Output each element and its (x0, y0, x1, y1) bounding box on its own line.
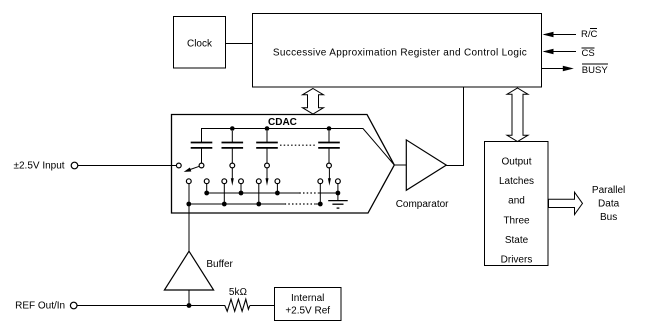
node ground rail S2 (239, 191, 244, 196)
wire contact S2 ref to ref rail (223, 184, 225, 205)
parallel data bus arrow (549, 192, 583, 214)
contact S3 gnd (275, 179, 280, 184)
switch arrow SN (328, 168, 331, 186)
terminal REF Out/In (70, 302, 77, 309)
contact S3 ref (256, 179, 261, 184)
wire comparator output to SAR (446, 87, 463, 166)
label R/C (581, 29, 598, 41)
contact S1 ref (186, 179, 191, 184)
svg-text:Comparator: Comparator (396, 199, 449, 210)
wire R/C input with arrowhead (543, 32, 577, 38)
wire REF to resistor (77, 305, 225, 307)
node ref rail S1 (186, 202, 191, 207)
switch pole S3 (265, 163, 270, 168)
CDAC block outline (172, 115, 395, 214)
wire clock to SAR (226, 43, 253, 45)
wire buffer input stub (188, 290, 190, 306)
capacitor C3 (256, 131, 278, 163)
clock box (174, 17, 226, 69)
switch arrow S3 (266, 168, 269, 186)
SAR and control logic box U1 (253, 14, 542, 88)
wire contact S3 gnd to ground rail (276, 184, 278, 194)
svg-text:Data: Data (598, 198, 620, 209)
wire resistor to internal ref (250, 305, 275, 307)
node ref rail SN (318, 202, 323, 207)
switch pole SN (327, 163, 332, 168)
switch pole S1 (199, 163, 204, 168)
wire contact SN gnd to ground rail (337, 184, 339, 194)
svg-text:REF Out/In: REF Out/In (15, 301, 65, 312)
wire contact S3 ref to ref rail (258, 184, 260, 205)
node ground rail S1 (204, 191, 209, 196)
internal reference box U5 (275, 288, 342, 321)
contact SN ref (318, 179, 323, 184)
node ground rail S3 (275, 191, 280, 196)
capacitor C1 (191, 143, 213, 164)
svg-text:Parallel: Parallel (592, 185, 625, 196)
svg-text:5kΩ: 5kΩ (229, 287, 247, 298)
bidirectional bus arrow SAR to output latches (507, 88, 528, 142)
contact S2 ref (222, 179, 227, 184)
bidirectional bus arrow SAR to CDAC (303, 89, 324, 115)
wire CS input with arrowhead (543, 49, 577, 55)
switch arm S1 wiper arrow (184, 166, 200, 172)
switch pole S2 (230, 163, 235, 168)
input terminal node inside CDAC (176, 163, 181, 168)
wire input to switch (78, 165, 177, 167)
svg-text:Internal: Internal (291, 293, 324, 304)
svg-text:Latches: Latches (499, 176, 534, 187)
contact S1 gnd (204, 179, 209, 184)
svg-text:+2.5V Ref: +2.5V Ref (285, 306, 330, 317)
svg-text:and: and (508, 196, 525, 207)
svg-text:Clock: Clock (187, 39, 213, 50)
dotted continuation of capacitor array (280, 144, 317, 146)
terminal ±2.5V Input (71, 162, 78, 169)
svg-text:CS: CS (582, 48, 595, 59)
capacitor C2 (222, 131, 244, 163)
node top rail cap2 (230, 126, 235, 131)
svg-text:±2.5V Input: ±2.5V Input (14, 161, 65, 172)
output latches box U3 (485, 142, 549, 266)
ground symbol (328, 193, 348, 208)
svg-text:Three: Three (503, 215, 530, 226)
svg-text:Buffer: Buffer (206, 259, 233, 270)
svg-text:Bus: Bus (600, 212, 617, 223)
top rail of CDAC (to comparator input) (202, 129, 395, 166)
node top rail capN (327, 126, 332, 131)
contact SN gnd (336, 179, 341, 184)
svg-text:BUSY: BUSY (582, 65, 609, 76)
contact S2 gnd (239, 179, 244, 184)
wire contact SN ref to ref rail (319, 184, 321, 205)
svg-text:State: State (505, 235, 529, 246)
svg-text:CDAC: CDAC (268, 117, 297, 128)
node ref rail S2 (222, 202, 227, 207)
wire BUSY output with arrowhead (542, 66, 574, 72)
label BUSY (582, 64, 609, 76)
node ground rail SN (336, 191, 341, 196)
wire buffer output to ref rail and contact S1 ref (188, 184, 190, 252)
ref rail (189, 203, 320, 205)
node ref rail S3 (256, 202, 261, 207)
buffer amplifier U4 (164, 251, 213, 290)
svg-text:Drivers: Drivers (501, 254, 533, 265)
comparator U2 (406, 140, 446, 190)
ground rail (207, 192, 338, 194)
capacitor CN (318, 131, 340, 163)
svg-text:R/C: R/C (581, 29, 598, 40)
svg-text:Successive Approximation Regis: Successive Approximation Register and Co… (273, 47, 527, 58)
svg-text:Output: Output (501, 157, 531, 168)
node buffer input junction (187, 303, 192, 308)
resistor R1 5kOhm (225, 299, 250, 311)
switch arrow S2 (231, 168, 234, 186)
comparator input wire (394, 164, 406, 166)
wire contact S2 gnd to ground rail (240, 184, 242, 194)
node top rail cap3 (265, 126, 270, 131)
wire contact S1 gnd to ground rail (206, 184, 208, 194)
label Parallel Data Bus (592, 185, 625, 223)
label CS (582, 48, 595, 59)
